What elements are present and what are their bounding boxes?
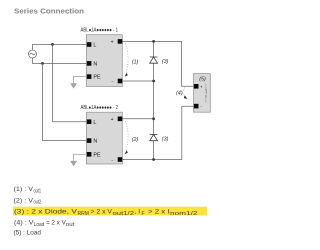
AC source V1 <box>29 50 37 58</box>
svg-text:out1/2: out1/2 <box>113 211 135 217</box>
node: D1 bottom junction <box>152 80 155 83</box>
wire: source top to L1 <box>33 44 87 50</box>
node: D2 bottom junction <box>152 158 155 161</box>
wire: +1 output to load top corner <box>122 41 193 86</box>
svg-text:(4): (4) <box>176 91 183 97</box>
svg-text:(1) : V: (1) : V <box>14 186 34 193</box>
wire: +2 output to series node <box>122 118 153 120</box>
legend highlight row (3) <box>13 207 207 216</box>
Vload dimension line inside load <box>204 84 208 104</box>
svg-text:out2: out2 <box>34 200 42 206</box>
wire: -2 output to load bottom corner <box>122 106 193 159</box>
pin -1 <box>111 79 122 85</box>
ground PE1 <box>70 77 87 89</box>
svg-text:L: L <box>93 120 96 126</box>
svg-text:out: out <box>66 222 75 228</box>
svg-text:PE: PE <box>93 152 101 158</box>
svg-text:(3): (3) <box>162 137 169 143</box>
diode D1 <box>150 57 158 63</box>
svg-text:N: N <box>93 62 97 68</box>
svg-text:(2): (2) <box>132 137 139 143</box>
ground PE2 <box>70 154 87 166</box>
svg-text:N: N <box>93 139 97 145</box>
pin L2 <box>87 119 97 125</box>
wire: series link -1 to +2 <box>153 81 155 119</box>
svg-text:RRM: RRM <box>78 211 89 217</box>
load RL body <box>194 74 211 113</box>
svg-text:ABL●1A●●●●●● - 1: ABL●1A●●●●●● - 1 <box>81 27 119 33</box>
legend line (1) <box>14 186 42 194</box>
wire: -1 output to series node <box>122 80 153 82</box>
pin N1 <box>87 61 98 67</box>
svg-text:+: + <box>111 39 114 45</box>
wire: L dropper to L2 <box>53 44 87 121</box>
svg-text:F: F <box>142 211 145 217</box>
legend line (3) <box>14 209 198 217</box>
pin +1 <box>111 39 123 45</box>
power supply module U2 body <box>86 112 122 164</box>
svg-text:PE: PE <box>93 75 101 81</box>
legend line (2) <box>14 197 42 205</box>
svg-text:(3): (3) <box>162 59 169 65</box>
svg-text:(5): (5) <box>199 76 206 82</box>
svg-text:Series Connection: Series Connection <box>14 6 84 15</box>
node: D2 top junction <box>152 117 155 120</box>
wire: source bottom to N1 <box>33 58 87 63</box>
svg-text:ABL●1A●●●●●● - 2: ABL●1A●●●●●● - 2 <box>81 105 119 111</box>
svg-text:(1): (1) <box>132 60 139 66</box>
pin load - <box>194 104 203 109</box>
svg-text:nom1/2: nom1/2 <box>170 211 198 217</box>
svg-text:, I: , I <box>135 209 141 216</box>
svg-text:(4) : V: (4) : V <box>14 219 34 226</box>
diode D1 branch wires <box>153 41 155 81</box>
svg-text:> 2 x I: > 2 x I <box>148 209 170 216</box>
wire: N dropper to N2 <box>43 63 87 140</box>
pin load + <box>194 84 203 89</box>
pin PE2 <box>87 152 101 158</box>
svg-text:VLoad: VLoad <box>204 89 208 98</box>
diode D2 branch wires <box>153 119 155 160</box>
legend line (4) <box>14 219 75 227</box>
Vout1 measure arrow (1) <box>125 44 139 77</box>
svg-text:(5) : Load: (5) : Load <box>14 230 42 237</box>
Vout2 measure arrow (2) <box>125 121 139 154</box>
diode D2 <box>150 135 158 141</box>
pin L1 <box>87 42 97 48</box>
svg-text:+: + <box>200 84 203 89</box>
svg-text:Load: Load <box>34 222 45 228</box>
node: junction on L wire <box>51 43 54 46</box>
svg-text:L: L <box>93 43 96 49</box>
pin N2 <box>87 138 98 144</box>
svg-text:+: + <box>111 117 114 123</box>
pin PE1 <box>87 74 101 80</box>
svg-text:(2) : V: (2) : V <box>14 197 34 204</box>
node: D1 top junction <box>152 40 155 43</box>
node: junction on N wire <box>41 62 44 65</box>
power supply module U1 body <box>86 35 122 87</box>
Vload measure arrow (4) <box>176 88 187 99</box>
pin +2 <box>111 117 123 123</box>
pin -2 <box>111 157 122 163</box>
svg-text:(3) : 2 x Diode, V: (3) : 2 x Diode, V <box>14 209 78 216</box>
svg-text:> 2 x V: > 2 x V <box>91 209 113 216</box>
svg-text:out1: out1 <box>34 189 42 195</box>
svg-text:= 2 x V: = 2 x V <box>46 219 66 226</box>
